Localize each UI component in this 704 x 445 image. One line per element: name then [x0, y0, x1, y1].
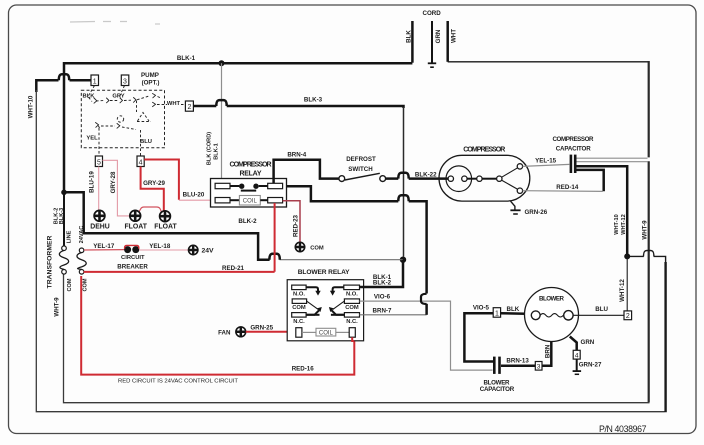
terminal 3 (blower cap) [535, 362, 542, 371]
wire BLU-20 [179, 199, 215, 201]
svg-text:COMPRESSOR: COMPRESSOR [553, 136, 595, 143]
wire BLK to blower [501, 312, 532, 315]
svg-text:24VAC: 24VAC [79, 226, 85, 244]
wire GRN-27 [576, 359, 578, 371]
svg-text:BLK-22: BLK-22 [415, 171, 437, 178]
FLOAT sensor 2 [159, 210, 171, 222]
junction primary [61, 190, 67, 196]
wire BRN-7 [360, 314, 427, 316]
compressor pin S [517, 164, 522, 169]
svg-text:RED-16: RED-16 [292, 366, 315, 373]
terminal 1 (blower) [493, 308, 500, 318]
svg-text:BRN-13: BRN-13 [506, 358, 529, 365]
wire pump YEL drop [98, 128, 100, 156]
svg-text:GRY-28: GRY-28 [110, 171, 117, 193]
svg-text:RED CIRCUIT IS 24VAC CONTROL C: RED CIRCUIT IS 24VAC CONTROL CIRCUIT [118, 379, 238, 385]
svg-text:3: 3 [123, 78, 127, 85]
svg-text:COM: COM [67, 278, 73, 291]
wire BRN-7 riser hop over VIO-6 [425, 304, 428, 315]
ground GRN-27 [573, 370, 582, 372]
svg-text:WHT: WHT [450, 29, 457, 43]
relay coil terminal right [349, 328, 355, 338]
svg-text:2: 2 [187, 104, 191, 111]
svg-text:YEL: YEL [86, 136, 98, 142]
svg-text:VIO-5: VIO-5 [473, 305, 490, 312]
wire BLK (CORD) drop to compressor relay [221, 63, 223, 183]
pump internal dashed wiring [88, 86, 184, 157]
svg-text:VIO-6: VIO-6 [374, 294, 391, 301]
hop BLK-22 over BLK-3 [398, 173, 408, 179]
blower capacitor plate right [498, 357, 501, 374]
wire BRN-4 [274, 160, 339, 184]
wire BLK-22 [386, 177, 399, 180]
wire WHT-9 vertical lower segment and bottom run to transformer COM [648, 161, 650, 402]
svg-text:BLK-1: BLK-1 [177, 55, 196, 62]
circuit breaker contacts [124, 246, 131, 253]
relay coil wire right [260, 199, 267, 201]
wire VIO-6 [360, 301, 493, 370]
svg-text:BLK-1: BLK-1 [214, 143, 220, 159]
blower capacitor plate left [493, 357, 496, 374]
relay coil box [316, 328, 336, 336]
svg-text:N.C.: N.C. [293, 319, 305, 325]
wire RED-16 [81, 276, 354, 375]
defrost switch contact left [339, 176, 345, 182]
svg-text:WHT-9: WHT-9 [642, 220, 649, 240]
svg-text:YEL-17: YEL-17 [93, 243, 115, 250]
svg-text:BRN: BRN [545, 344, 552, 358]
svg-text:RED-21: RED-21 [222, 265, 245, 272]
junction BLK-1 / BLK(CORD) [219, 60, 225, 66]
svg-text:RELAY: RELAY [240, 170, 262, 177]
wire BRN-13 [501, 364, 535, 367]
svg-text:BLU: BLU [595, 306, 608, 313]
wire WHT cord to WHT-9 right vertical [448, 61, 649, 63]
wire red coil drop to RED-21 [274, 203, 276, 272]
blower terminal left [531, 311, 540, 320]
faint smudge marks top left [70, 22, 160, 25]
wire pump right contacts to WHT exit [157, 97, 184, 105]
defrost switch blade [345, 173, 380, 180]
wire pump BLK lead [88, 86, 95, 102]
svg-text:COM: COM [83, 278, 89, 291]
wire cap to WHT-9 upper [577, 157, 648, 159]
blower relay enclosure U3 [287, 280, 363, 341]
transformer primary winding [59, 250, 68, 269]
wire WHT-10 vertical to compressor capacitor [576, 166, 628, 256]
hop BLK-3 over BLK(CORD) [216, 100, 226, 106]
wire coil to RED-16 [352, 337, 354, 341]
wire YEL-15 [523, 164, 570, 166]
relay N.C. wire left [306, 314, 319, 316]
wire VIO-5 [464, 313, 493, 361]
wire BLU-19 [98, 167, 100, 211]
wire relay contact to BRN-7 drop [287, 186, 399, 201]
pump motor symbol [137, 113, 151, 122]
svg-text:5: 5 [97, 159, 101, 166]
svg-text:CAPACITOR: CAPACITOR [480, 386, 515, 393]
svg-text:BLU: BLU [140, 139, 152, 145]
svg-text:WHT-10: WHT-10 [614, 214, 620, 235]
capacitor plate right [574, 155, 577, 173]
wire WHT-12 from junction to blower terminal 2 [626, 256, 628, 311]
relay coil terminal left [296, 328, 302, 338]
wire GRN-25 [246, 331, 296, 333]
svg-text:BLK-3: BLK-3 [304, 96, 323, 103]
svg-text:COM: COM [292, 305, 306, 311]
svg-text:CIRCUIT: CIRCUIT [121, 255, 145, 261]
svg-text:PUMP: PUMP [141, 72, 159, 79]
svg-text:DEHU: DEHU [90, 224, 110, 231]
svg-text:BLK (CORD): BLK (CORD) [207, 132, 213, 165]
svg-text:CAPACITOR: CAPACITOR [556, 145, 592, 152]
wire WHT-10: pump terminal 1 to left frame and bottom run [70, 79, 92, 82]
defrost switch contact right [380, 176, 386, 182]
relay arm N.O. right [333, 287, 344, 291]
blower terminal right [564, 311, 573, 320]
compressor pin R [517, 188, 522, 193]
svg-text:FLOAT: FLOAT [154, 224, 177, 231]
relay terminal N.O. left [292, 285, 306, 290]
svg-text:YEL-18: YEL-18 [149, 243, 171, 250]
compressor pin C [448, 176, 453, 181]
svg-text:COMPRESSOR: COMPRESSOR [230, 161, 272, 168]
COM test point [295, 242, 305, 252]
wire cap to WHT-9 lower [577, 161, 648, 163]
compressor pin common [497, 176, 502, 181]
transformer 24VAC terminal [79, 248, 84, 253]
svg-text:N.O.: N.O. [346, 291, 358, 297]
relay arm N.O. left [306, 287, 318, 291]
svg-text:2: 2 [626, 313, 630, 320]
relay contact wire left [230, 185, 239, 187]
wire BLK-2 branch: junction right, down, right to blower relay node [64, 192, 270, 259]
wire cord WHT vertical [446, 21, 449, 62]
svg-text:GRN-25: GRN-25 [250, 324, 273, 331]
svg-text:BLK: BLK [406, 30, 413, 43]
relay terminal bottom-left [215, 198, 230, 203]
relay terminal bottom-right [268, 198, 283, 203]
relay terminal N.C. right [344, 313, 359, 318]
svg-text:BLOWER RELAY: BLOWER RELAY [298, 269, 350, 276]
wire WHT-10 hop line to WHT-12 junction [654, 256, 666, 262]
wire BLK-1/BLK-2 to N.O. right [360, 260, 404, 287]
relay contact dot 1 [239, 184, 244, 189]
FLOAT sensor 1 [129, 210, 141, 222]
relay terminal COM right [344, 299, 359, 304]
svg-text:BLK: BLK [507, 306, 520, 313]
svg-text:4: 4 [139, 159, 143, 166]
terminal 1 [91, 75, 99, 86]
svg-text:WHT-9: WHT-9 [54, 297, 61, 317]
svg-text:N.O.: N.O. [293, 291, 305, 297]
wire YEL-17 [84, 249, 124, 251]
hop BLK-2 over red coil drop [269, 254, 279, 260]
svg-text:SWITCH: SWITCH [348, 166, 373, 173]
capacitor plate left [570, 155, 573, 173]
transformer COM terminal (right) [79, 270, 84, 275]
svg-text:1: 1 [93, 78, 97, 85]
pump switch chevrons [94, 94, 156, 129]
wire pump top contact run [96, 96, 149, 101]
svg-text:FAN: FAN [218, 329, 231, 336]
relay coil box [239, 196, 260, 206]
svg-text:(OPT.): (OPT.) [142, 80, 160, 87]
svg-text:COMPRESSOR: COMPRESSOR [463, 147, 505, 154]
wire BLU to terminal 2 [573, 314, 624, 316]
svg-text:1: 1 [495, 310, 499, 317]
relay coil lead left [302, 331, 316, 333]
wire internal link 1 [467, 178, 477, 180]
compressor pin internal [462, 176, 467, 181]
wire internal link 2 [482, 178, 497, 180]
relay arm COM-NC right [333, 301, 345, 309]
svg-text:TRANSFORMER: TRANSFORMER [46, 235, 53, 288]
transformer secondary winding [77, 253, 86, 270]
svg-text:P/N 4038967: P/N 4038967 [599, 424, 647, 434]
terminal 4 (blower) [573, 350, 580, 359]
transformer LINE terminal [62, 246, 67, 251]
svg-text:LINE: LINE [67, 230, 73, 243]
svg-text:BLOWER: BLOWER [539, 296, 565, 303]
junction WHT-10/WHT-12 [624, 253, 630, 259]
svg-text:WHT-10: WHT-10 [28, 95, 35, 118]
svg-text:BLU-20: BLU-20 [183, 192, 205, 199]
wire pump GRY lead [120, 86, 125, 97]
svg-text:GRY-29: GRY-29 [143, 180, 165, 187]
wire cord BLK vertical [411, 21, 414, 63]
wire pump BLU drop [140, 130, 142, 156]
svg-text:BLK-2: BLK-2 [373, 279, 392, 286]
svg-text:WHT-12: WHT-12 [619, 279, 626, 302]
pump float ball [117, 116, 123, 122]
wire BLK-3 from pump terminal 2 [193, 105, 216, 108]
relay N.C. wire right [331, 314, 345, 316]
wire GRY-29 [141, 167, 164, 212]
svg-text:WHT: WHT [167, 101, 181, 107]
relay contact wire right [259, 185, 268, 187]
compressor ground stub [511, 201, 515, 210]
wire GRY-28 [103, 160, 131, 216]
svg-text:GRN: GRN [435, 29, 442, 43]
svg-text:FLOAT: FLOAT [124, 224, 147, 231]
terminal 4 [137, 156, 144, 167]
wire to run pin [502, 180, 518, 189]
DEHU sensor [94, 210, 106, 222]
svg-text:BLU-19: BLU-19 [89, 171, 96, 193]
wire BRN drop from blower [542, 342, 551, 366]
svg-text:RED-14: RED-14 [556, 184, 579, 191]
wire to start pin [502, 168, 518, 178]
wire BLK-1 [64, 63, 412, 191]
wire RED-23 [283, 201, 300, 242]
svg-text:CORD: CORD [422, 10, 441, 17]
wire float link arc [139, 207, 162, 213]
ground GRN-26 [510, 209, 520, 211]
wire BLU-20 feed [144, 160, 179, 200]
junction BLK-3 / BLK-2 node [400, 257, 406, 263]
terminal 2 (blower) [624, 311, 632, 320]
svg-text:YEL-15: YEL-15 [535, 157, 557, 164]
svg-text:WHT-12: WHT-12 [621, 214, 627, 235]
svg-text:COIL: COIL [319, 330, 334, 336]
svg-text:24V: 24V [202, 248, 215, 255]
wire RED-14 [523, 190, 603, 193]
relay coil wire left [230, 199, 239, 201]
relay armature bar [241, 190, 256, 192]
svg-text:4: 4 [575, 352, 579, 359]
FAN test point [235, 326, 246, 337]
wire YEL-18 [139, 249, 189, 251]
terminal 5 [95, 156, 102, 167]
transformer COM terminal (left) [62, 270, 67, 275]
wire primary lead to LINE terminal [63, 192, 65, 246]
svg-text:BRN-4: BRN-4 [287, 152, 306, 159]
relay terminal COM left [292, 299, 306, 304]
hop over WHT-9 vertical [644, 251, 654, 257]
breaker reset arc [125, 245, 139, 248]
compressor body [439, 155, 530, 201]
wire pump motor branch [136, 101, 138, 113]
relay terminal top-left [215, 183, 230, 188]
hop over BLK-3 vertical [398, 195, 408, 201]
svg-text:BREAKER: BREAKER [117, 264, 148, 271]
compressor pin internal 2 [477, 176, 482, 181]
relay contact dot 2 [253, 184, 258, 189]
svg-text:BLK-2: BLK-2 [238, 218, 257, 225]
svg-text:N.C.: N.C. [346, 319, 358, 325]
svg-text:COM: COM [310, 246, 324, 252]
wire pump lower run [98, 124, 137, 130]
hop WHT-10 over BLK-1 vertical [59, 74, 69, 80]
svg-text:DEFROST: DEFROST [346, 156, 376, 163]
wire RED-21 [84, 271, 275, 273]
svg-text:RED-23: RED-23 [292, 214, 299, 237]
svg-text:3: 3 [537, 363, 541, 370]
blower motor body [525, 288, 579, 342]
svg-text:GRN: GRN [581, 339, 595, 346]
relay terminal N.C. left [292, 313, 306, 318]
relay terminal N.O. right [344, 285, 360, 290]
wire cord GRN vertical [431, 21, 433, 63]
24V test point [188, 245, 198, 255]
compressor start winding circle [446, 166, 472, 192]
terminal 2 [185, 101, 193, 111]
blower winding [540, 314, 563, 317]
svg-text:COM: COM [345, 305, 359, 311]
pump dashed enclosure [81, 90, 164, 147]
svg-text:GRN-26: GRN-26 [524, 209, 547, 216]
svg-text:COIL: COIL [243, 199, 258, 205]
terminal 3 [121, 75, 129, 86]
compressor relay enclosure U2 [211, 179, 287, 208]
svg-text:BRN-7: BRN-7 [373, 307, 392, 314]
ground (cord GRN) [428, 62, 436, 64]
svg-text:GRN-27: GRN-27 [579, 362, 602, 369]
relay coil lead right [336, 331, 349, 333]
wire GRN drop from blower [570, 337, 577, 351]
svg-text:GRY: GRY [112, 94, 124, 100]
relay arm COM-NC left [307, 301, 319, 309]
wire RED-14 riser [577, 170, 604, 191]
relay terminal top-right [268, 183, 283, 188]
